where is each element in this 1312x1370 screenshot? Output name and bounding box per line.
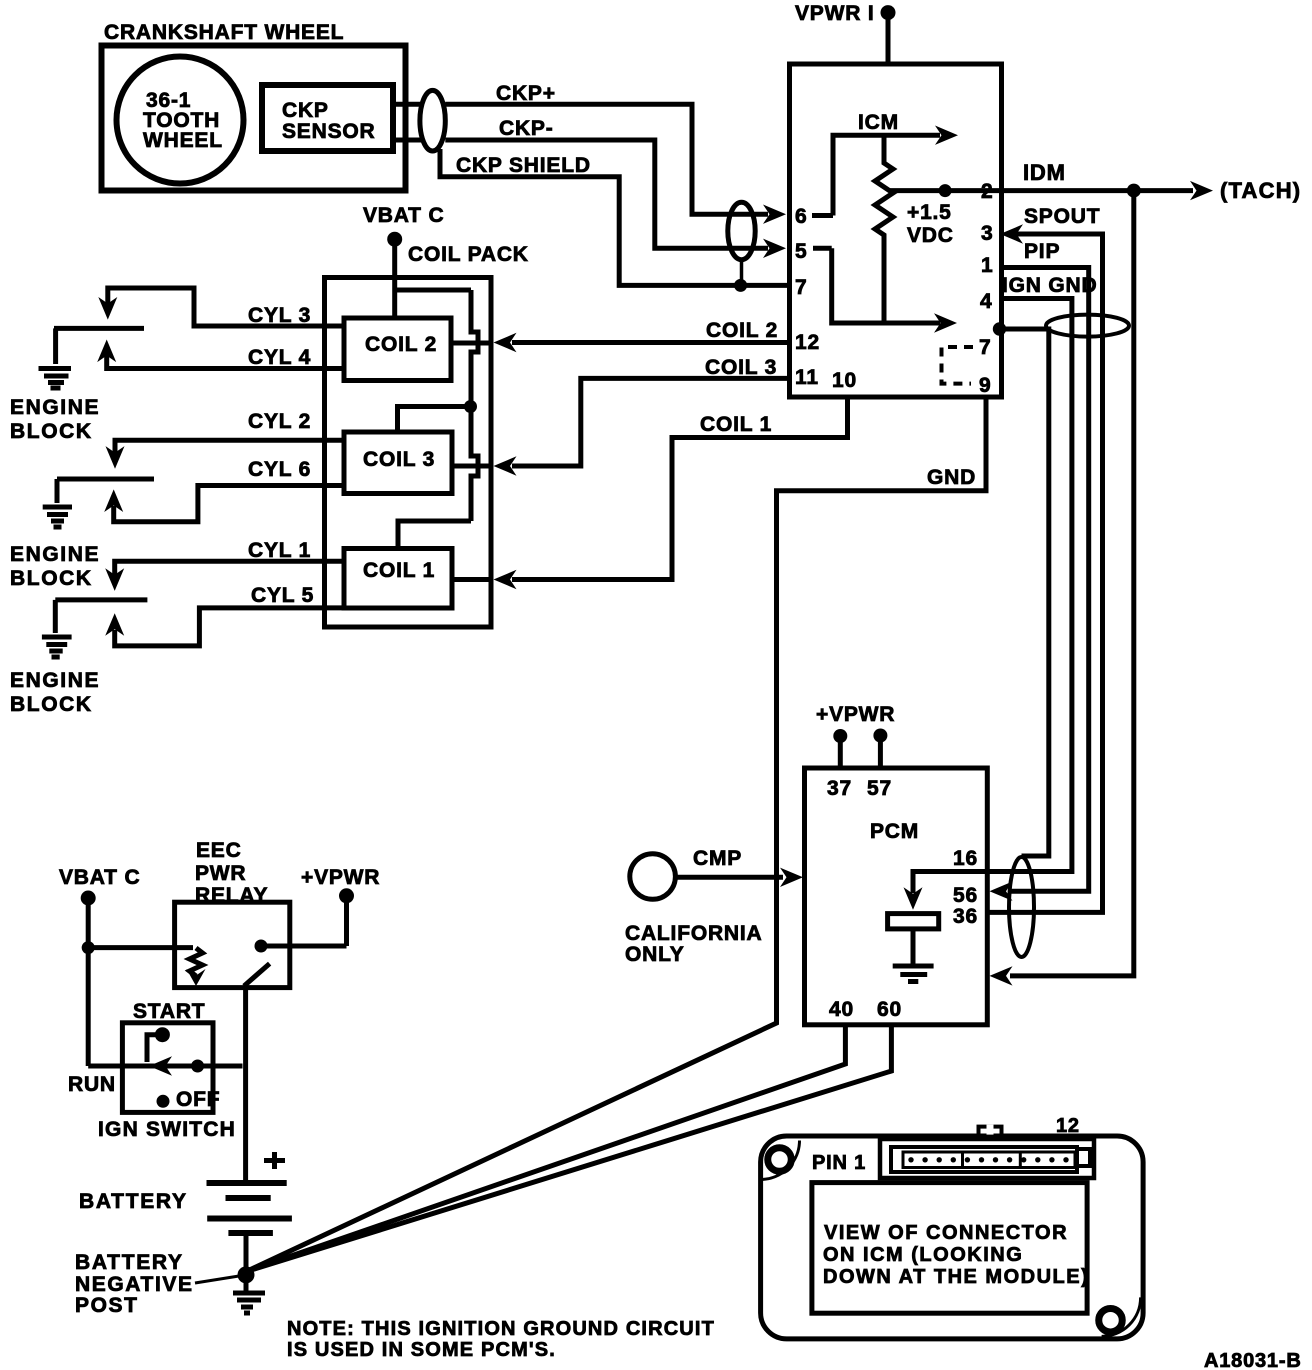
svg-text:BLOCK: BLOCK xyxy=(10,420,93,443)
wire CYL 3 xyxy=(108,288,344,326)
wire CKP SHIELD xyxy=(440,149,787,285)
svg-text:CYL 1: CYL 1 xyxy=(248,539,311,562)
wire battery negative xyxy=(244,1236,249,1268)
wire PCM 40 to battery post xyxy=(246,1025,845,1272)
battery plates xyxy=(207,1180,287,1186)
pin 5 arrow xyxy=(763,239,786,258)
connector text box xyxy=(812,1183,1087,1314)
wire VBAT feed xyxy=(392,241,397,318)
coil 3 output stub xyxy=(452,464,489,469)
battery negative post dot xyxy=(238,1266,255,1283)
connector bar latch xyxy=(1075,1149,1090,1166)
svg-text:+VPWR: +VPWR xyxy=(301,866,380,889)
ICM pin 6 stub xyxy=(812,213,833,218)
svg-text:CALIFORNIA: CALIFORNIA xyxy=(625,922,763,945)
post ground symbol xyxy=(233,1293,265,1313)
coil COIL 1 box xyxy=(344,549,452,609)
connector bar dividers xyxy=(963,1152,1021,1168)
PCM internal ground symbol xyxy=(893,966,934,982)
svg-text:OFF: OFF xyxy=(176,1088,220,1111)
svg-text:ENGINE: ENGINE xyxy=(10,543,100,566)
coil 1 output stub xyxy=(452,577,489,582)
resistor R (ICM internal) xyxy=(875,135,893,323)
ICM pin 5 stub xyxy=(813,246,832,251)
TACH arrow xyxy=(1190,181,1213,200)
ICM internal lower wire xyxy=(832,248,940,323)
bus junction dot xyxy=(464,400,477,413)
coil 3 feed wire xyxy=(398,407,472,433)
svg-text:9: 9 xyxy=(979,374,991,397)
PCM internal ground lead xyxy=(911,929,916,964)
svg-text:COIL 1: COIL 1 xyxy=(363,559,435,582)
wire CMP to PCM xyxy=(675,875,783,880)
wire CKP+ xyxy=(445,104,768,214)
coil 2 arrow xyxy=(494,333,517,352)
36-1 tooth wheel xyxy=(117,57,244,184)
svg-text:ON ICM (LOOKING: ON ICM (LOOKING xyxy=(823,1244,1023,1266)
svg-text:56: 56 xyxy=(953,884,978,907)
svg-text:PCM: PCM xyxy=(870,820,919,843)
ground drop B xyxy=(55,479,60,503)
svg-text:12: 12 xyxy=(1056,1115,1080,1137)
wire +VPWR to PCM 57 xyxy=(878,737,883,768)
coil 3 arrow xyxy=(494,456,517,475)
CKP sensor stub wires xyxy=(393,104,422,140)
spark gap arrow down (cyl 1) xyxy=(105,568,124,591)
wire COIL 3 (ICM 11 to coil pack) xyxy=(512,378,787,466)
svg-text:BATTERY: BATTERY xyxy=(79,1190,188,1213)
PCM bundle oval xyxy=(1009,857,1034,957)
svg-text:ENGINE: ENGINE xyxy=(10,669,100,692)
svg-text:CYL 4: CYL 4 xyxy=(248,346,311,369)
IDM tap junction dot xyxy=(939,184,952,197)
svg-text:GND: GND xyxy=(927,466,976,489)
svg-text:COIL 2: COIL 2 xyxy=(706,319,778,342)
svg-text:START: START xyxy=(133,1000,205,1023)
coil pack box xyxy=(325,278,492,628)
svg-text:RUN: RUN xyxy=(68,1073,116,1096)
svg-text:5: 5 xyxy=(795,240,807,263)
svg-text:ENGINE: ENGINE xyxy=(10,396,100,419)
svg-text:BLOCK: BLOCK xyxy=(10,693,93,716)
wire IGN GND (ICM 4 to PCM 16) xyxy=(990,299,1072,872)
post ground lead xyxy=(244,1275,249,1291)
svg-text:IGN GND: IGN GND xyxy=(1002,274,1097,297)
svg-text:ICM: ICM xyxy=(858,111,899,134)
svg-text:CRANKSHAFT WHEEL: CRANKSHAFT WHEEL xyxy=(104,21,344,44)
bottom-right ear ring xyxy=(1099,1308,1123,1332)
svg-text:7: 7 xyxy=(979,336,991,359)
PCM internal resistor box xyxy=(888,914,939,929)
wire CYL 6 xyxy=(114,486,344,522)
spark gap arrow up (cyl 5) xyxy=(105,613,124,636)
coil 1 feed wire xyxy=(398,521,471,549)
wire IDM (resistor tap to TACH) xyxy=(890,188,1193,193)
wire SPOUT (PCM 36 to ICM 3) xyxy=(990,234,1103,912)
svg-text:40: 40 xyxy=(829,998,854,1021)
svg-text:PIP: PIP xyxy=(1024,240,1060,263)
wire VBAT C down to ign switch xyxy=(86,899,91,1066)
wire VPWR I to ICM xyxy=(886,14,891,64)
svg-text:VBAT C: VBAT C xyxy=(363,204,444,227)
connector bar outer xyxy=(880,1139,1094,1178)
connector bar inner xyxy=(891,1147,1077,1172)
ign switch wiper dot xyxy=(191,1060,204,1073)
svg-text:1: 1 xyxy=(981,254,993,277)
wire CKP- xyxy=(445,140,768,248)
svg-text:36: 36 xyxy=(953,905,978,928)
wire CYL 2 xyxy=(115,440,344,453)
spark gap arrow up (cyl 4) xyxy=(97,340,116,363)
wire +VPWR to PCM 37 xyxy=(838,737,843,768)
relay contact dot xyxy=(255,940,268,953)
svg-text:(TACH): (TACH) xyxy=(1220,178,1301,203)
twisted pair oval at ICM xyxy=(728,202,755,259)
coil COIL 2 box xyxy=(344,318,451,381)
svg-text:60: 60 xyxy=(877,998,902,1021)
wire IDM to PCM xyxy=(1010,191,1134,976)
svg-text:CYL 6: CYL 6 xyxy=(248,458,311,481)
ICM internal top arrow xyxy=(935,126,958,145)
svg-text:11: 11 xyxy=(795,366,819,389)
spark gap arrow down (cyl 2) xyxy=(106,446,125,469)
svg-text:CKP+: CKP+ xyxy=(496,82,556,105)
svg-text:3: 3 xyxy=(981,222,993,245)
svg-text:7: 7 xyxy=(795,276,807,299)
svg-text:COIL 3: COIL 3 xyxy=(363,448,435,471)
svg-text:12: 12 xyxy=(795,331,820,354)
OFF contact dot xyxy=(157,1095,170,1108)
svg-text:IGN SWITCH: IGN SWITCH xyxy=(98,1118,236,1141)
CKP sensor xyxy=(262,85,393,151)
svg-text:CMP: CMP xyxy=(693,847,742,870)
ground drop A xyxy=(53,328,58,364)
relay switch blade xyxy=(244,964,270,986)
+VPWR terminal dot (relay) xyxy=(339,888,354,903)
svg-text:CKP-: CKP- xyxy=(499,117,554,140)
svg-text:+1.5: +1.5 xyxy=(907,201,952,224)
relay coil arrow xyxy=(187,969,206,986)
svg-text:A18031-B: A18031-B xyxy=(1204,1350,1302,1370)
wire relay contact to +VPWR xyxy=(261,897,347,946)
CKP connector oval xyxy=(420,90,445,151)
svg-text:DOWN AT THE MODULE): DOWN AT THE MODULE) xyxy=(823,1266,1089,1288)
ICM internal lower arrow xyxy=(934,313,957,332)
svg-text:VIEW OF CONNECTOR: VIEW OF CONNECTOR xyxy=(824,1222,1068,1244)
engine block ground A xyxy=(39,369,72,389)
svg-text:COIL 1: COIL 1 xyxy=(700,413,772,436)
coil COIL 3 box xyxy=(344,432,452,494)
EEC PWR relay box xyxy=(175,902,290,987)
coil 1 arrow xyxy=(494,570,517,589)
ICM module box xyxy=(790,64,1002,397)
svg-text:IDM: IDM xyxy=(1023,160,1066,185)
shield drain wire xyxy=(740,260,744,286)
svg-text:4: 4 xyxy=(980,290,992,313)
crankshaft wheel box xyxy=(102,46,406,191)
wire RUN feed xyxy=(88,1064,242,1069)
ign switch wiper arrow xyxy=(149,1056,172,1075)
spark gap arrow up (cyl 6) xyxy=(104,489,123,512)
wire relay to battery xyxy=(243,986,248,1181)
VBAT C terminal dot xyxy=(387,232,402,247)
svg-text:10: 10 xyxy=(832,369,857,392)
svg-text:6: 6 xyxy=(795,205,807,228)
svg-text:VDC: VDC xyxy=(907,224,954,247)
svg-text:NOTE: THIS IGNITION GROUND CIR: NOTE: THIS IGNITION GROUND CIRCUIT xyxy=(287,1318,715,1340)
spark electrode bar A xyxy=(54,326,144,331)
SPOUT arrow into pin 3 xyxy=(1000,224,1023,243)
top-left ear ring xyxy=(768,1148,792,1172)
svg-text:BATTERY: BATTERY xyxy=(75,1251,184,1274)
battery negative post pointer xyxy=(195,1276,239,1283)
START contact dot xyxy=(155,1027,170,1042)
shield junction dot xyxy=(734,279,747,292)
top-left mounting ear xyxy=(761,1141,800,1180)
ground drop C xyxy=(53,600,58,633)
wire CYL 5 xyxy=(115,608,344,646)
svg-text:37: 37 xyxy=(827,777,852,800)
wire CYL 4 xyxy=(107,355,344,369)
bottom-right mounting ear xyxy=(1102,1297,1141,1336)
wire PIP (ICM 1 to PCM 56) xyxy=(1004,268,1089,892)
PCM internal arrow down xyxy=(904,887,923,910)
wire PCM 60 to battery post xyxy=(246,1025,891,1272)
dashed aux pins bracket xyxy=(942,347,974,384)
svg-text:COIL 2: COIL 2 xyxy=(365,333,437,356)
connector view outer box xyxy=(761,1136,1144,1339)
svg-text:CKP: CKP xyxy=(282,99,329,122)
connector pin dots xyxy=(908,1157,1068,1162)
VPWR I terminal dot xyxy=(881,5,896,20)
START contact wire xyxy=(147,1035,162,1062)
bundle grouping oval xyxy=(1046,315,1129,337)
svg-text:NEGATIVE: NEGATIVE xyxy=(75,1273,194,1296)
wire VBAT to relay coil xyxy=(88,945,193,950)
coil pack internal bus xyxy=(395,290,478,521)
coil 2 output stub xyxy=(451,341,489,346)
svg-text:57: 57 xyxy=(867,777,892,800)
engine block ground C xyxy=(42,637,72,657)
wire ground bundle (dot to PCM oval) xyxy=(1000,329,1049,856)
ignition switch box xyxy=(122,1023,213,1113)
pin 6 arrow xyxy=(763,205,786,224)
svg-text:ONLY: ONLY xyxy=(625,943,685,966)
relay coil xyxy=(190,948,203,976)
svg-text:PIN 1: PIN 1 xyxy=(812,1152,866,1174)
CMP arrow into PCM xyxy=(780,868,803,887)
svg-text:COIL 3: COIL 3 xyxy=(705,356,777,379)
PCM module box xyxy=(805,768,988,1025)
svg-text:PWR: PWR xyxy=(195,862,246,885)
VBAT junction dot xyxy=(82,941,95,954)
spark gap arrow down (cyl 3) xyxy=(98,297,117,320)
IDM junction dot xyxy=(1127,184,1141,198)
svg-text:IS USED IN SOME PCM'S.: IS USED IN SOME PCM'S. xyxy=(287,1339,556,1361)
svg-text:CKP SHIELD: CKP SHIELD xyxy=(456,154,591,177)
VBAT C terminal dot (relay) xyxy=(81,891,96,906)
svg-text:VBAT C: VBAT C xyxy=(59,866,140,889)
spark electrode bar C xyxy=(55,597,147,602)
svg-text:WHEEL: WHEEL xyxy=(143,129,223,152)
connector pin row xyxy=(903,1152,1075,1168)
ICM ground node dot xyxy=(993,322,1006,335)
svg-text:BLOCK: BLOCK xyxy=(10,567,93,590)
wire GND (ICM 9 to battery post) xyxy=(246,397,986,1272)
svg-text:SENSOR: SENSOR xyxy=(282,120,376,143)
svg-text:16: 16 xyxy=(953,847,978,870)
svg-text:EEC: EEC xyxy=(196,839,242,862)
+VPWR terminal dot 37 xyxy=(833,729,847,743)
engine block ground B xyxy=(43,507,72,527)
wire CYL 1 xyxy=(115,561,344,575)
svg-text:VPWR I: VPWR I xyxy=(795,2,874,25)
PCM ground arrow xyxy=(990,966,1013,985)
spark electrode bar B xyxy=(57,477,154,482)
svg-text:CYL 5: CYL 5 xyxy=(251,584,314,607)
svg-text:+VPWR: +VPWR xyxy=(816,703,895,726)
PCM internal ground wire xyxy=(913,872,985,894)
svg-text:SPOUT: SPOUT xyxy=(1024,205,1100,228)
svg-text:CYL 2: CYL 2 xyxy=(248,410,311,433)
connector tab xyxy=(979,1127,1002,1140)
svg-text:COIL PACK: COIL PACK xyxy=(408,243,529,266)
svg-text:POST: POST xyxy=(75,1294,139,1317)
PCM pin 56 arrow xyxy=(990,882,1013,901)
battery plus sign xyxy=(264,1152,285,1169)
wire COIL 1 (ICM 10 to coil pack) xyxy=(512,397,848,580)
ICM internal top wire xyxy=(833,135,940,215)
wire COIL 2 (ICM 12 to coil pack) xyxy=(512,340,787,345)
CMP sensor circle xyxy=(630,854,676,900)
+VPWR terminal dot 57 xyxy=(873,729,887,743)
